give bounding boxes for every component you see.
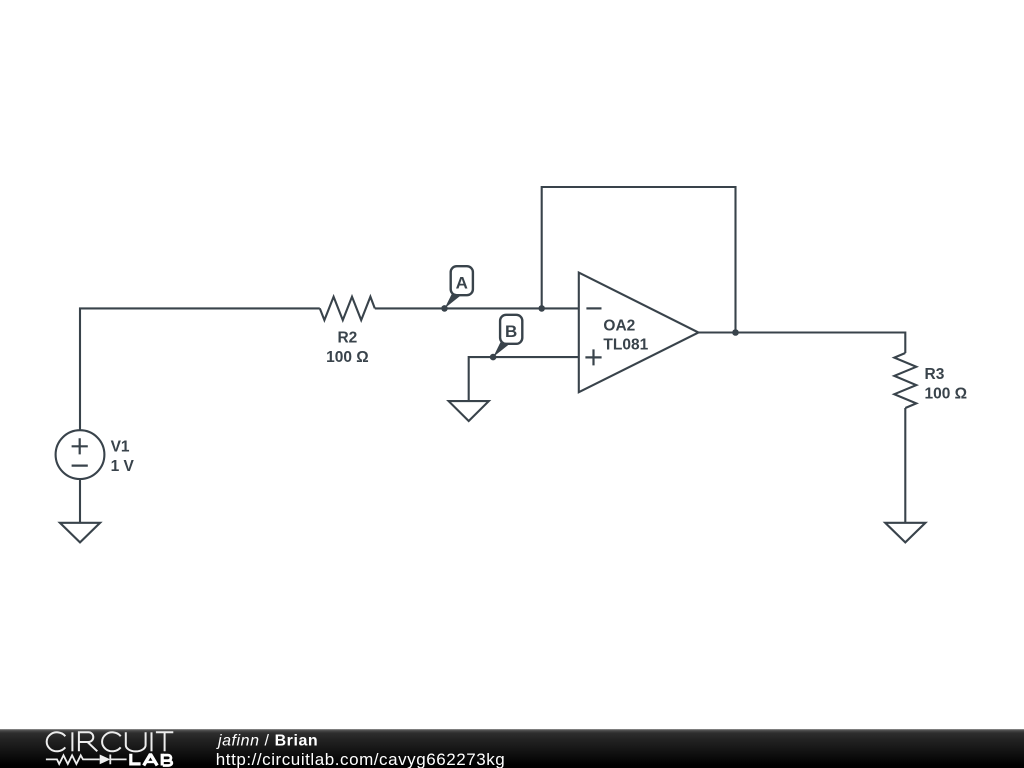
svg-text:jafinn / Brian: jafinn / Brian	[216, 732, 318, 749]
wire: V1 top up and across to R2 left	[80, 308, 320, 430]
svg-text:V1: V1	[111, 438, 130, 455]
ground (right, below R3)	[885, 523, 925, 543]
ground (below V1)	[60, 523, 100, 543]
junction dot: node B	[490, 354, 497, 361]
wire: R2 right to op-amp inverting input	[375, 307, 579, 309]
wire: V1 bottom to ground	[79, 479, 81, 523]
svg-text:OA2: OA2	[603, 317, 635, 334]
logo letter U	[126, 732, 146, 751]
junction dot: feedback tap on inverting input	[538, 305, 545, 312]
ground (noninverting input)	[449, 401, 489, 421]
logo resistor squiggle	[46, 755, 100, 764]
wire: feedback loop from inverting input node to output node	[542, 187, 736, 333]
svg-text:100 Ω: 100 Ω	[925, 385, 968, 402]
svg-text:TL081: TL081	[603, 336, 648, 353]
logo diode bar and wire	[110, 755, 126, 765]
op-amp plus input symbol	[585, 349, 601, 365]
op-amp OA2 triangle	[579, 273, 699, 393]
node A flag box	[451, 266, 473, 295]
logo letter I	[151, 732, 153, 751]
svg-text:1 V: 1 V	[111, 458, 135, 475]
logo word LAB: letter A	[144, 754, 158, 765]
wire: R3 bottom to ground	[904, 408, 906, 523]
svg-text:R3: R3	[925, 366, 945, 383]
logo letter I	[71, 732, 73, 751]
junction dot: output node	[732, 329, 739, 336]
svg-text:100 Ω: 100 Ω	[326, 349, 369, 366]
logo word LAB: letter B	[161, 754, 164, 766]
logo diode	[100, 755, 111, 765]
node A flag tail	[445, 294, 461, 309]
resistor R3	[894, 353, 916, 408]
voltage source minus symbol	[72, 465, 88, 467]
footer bar	[0, 729, 1024, 768]
voltage source plus symbol	[72, 438, 88, 454]
voltage source V1 circle	[56, 430, 105, 479]
svg-text:A: A	[456, 274, 468, 293]
svg-text:http://circuitlab.com/cavyg662: http://circuitlab.com/cavyg662273kg	[216, 750, 506, 768]
op-amp minus input symbol	[586, 307, 601, 309]
svg-text:B: B	[505, 322, 517, 341]
svg-text:R2: R2	[337, 330, 357, 347]
logo letter T	[156, 732, 173, 751]
wire: noninverting input from ground corner to op-amp	[469, 357, 579, 401]
logo letter C	[102, 732, 121, 751]
junction dot: node A	[441, 305, 448, 312]
wire: op-amp output to R3 top	[699, 333, 906, 354]
logo letter R	[79, 732, 97, 751]
node B flag tail	[493, 342, 509, 357]
node B flag box	[500, 315, 522, 344]
resistor R2	[320, 297, 375, 320]
logo word LAB: letter L	[131, 754, 141, 764]
logo word CIRCUIT: letter C	[47, 732, 66, 751]
